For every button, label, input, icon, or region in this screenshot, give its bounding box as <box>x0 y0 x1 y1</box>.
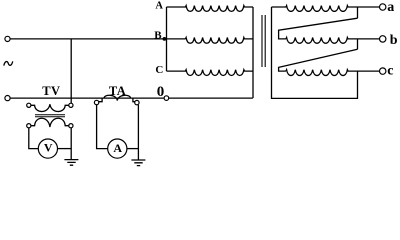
svg-text:a: a <box>387 0 394 15</box>
terminal b <box>380 36 386 42</box>
wire: bottom supply line to O <box>10 97 253 99</box>
voltmeter V <box>38 139 57 158</box>
source top terminal <box>5 36 10 41</box>
winding b (secondary) <box>286 38 358 44</box>
svg-text:0: 0 <box>157 84 165 100</box>
core line left <box>261 15 263 67</box>
wire: TV primary drop from top line <box>70 39 72 103</box>
junction dot node B <box>163 37 167 41</box>
wire: a lead <box>358 6 380 8</box>
TA secondary terminal right <box>135 100 139 104</box>
wire: b junction drop <box>357 39 359 49</box>
TV secondary winding <box>31 118 69 127</box>
svg-text:c: c <box>387 63 393 78</box>
source bottom terminal <box>5 96 10 101</box>
AC source symbol ~ <box>4 61 13 65</box>
wire: a junction drop <box>357 7 359 18</box>
winding C (primary) <box>167 70 254 76</box>
svg-text:V: V <box>44 141 53 155</box>
svg-text:C: C <box>155 64 163 76</box>
winding A (primary) <box>167 6 254 12</box>
wire: primary phase tie line A-B-C <box>166 7 168 71</box>
wire: delta left edge and bottom loop <box>272 7 358 98</box>
ground (TA secondary) <box>131 160 145 166</box>
wire: TV secondary left down to voltmeter <box>29 128 38 149</box>
ammeter A <box>108 139 127 158</box>
wire: TA right down to ground <box>137 105 139 160</box>
wire: TV secondary right down to ground <box>70 128 72 160</box>
wire: b lead <box>358 38 380 40</box>
winding a (secondary) <box>272 6 358 12</box>
wire: voltmeter to ground junction <box>58 148 72 150</box>
wire: TA left down to ammeter <box>97 105 108 149</box>
winding B (primary) <box>185 38 253 44</box>
ground (TV secondary) <box>64 160 78 166</box>
svg-text:A: A <box>113 141 122 155</box>
TV primary terminal left <box>27 103 31 107</box>
terminal a <box>380 4 386 10</box>
wire: top supply line from source to windings <box>10 38 185 40</box>
wire: diagonal a-drop to winding b start <box>279 18 358 39</box>
svg-text:TA: TA <box>109 84 126 98</box>
TV primary terminal right <box>69 103 73 107</box>
TV core bars <box>35 115 65 117</box>
wire: c lead <box>358 70 380 72</box>
TA secondary winding <box>104 95 131 100</box>
TA secondary terminal left <box>94 100 98 104</box>
TV secondary terminal left <box>27 124 31 128</box>
svg-text:TV: TV <box>42 84 60 98</box>
terminal c <box>380 68 386 74</box>
wire: ammeter to ground junction <box>127 148 138 150</box>
wire: primary star bus <box>252 7 254 98</box>
TA secondary stub left <box>99 98 102 102</box>
wire: diagonal b-drop to winding c start <box>279 49 358 71</box>
core line right <box>264 15 266 67</box>
TV secondary terminal right <box>69 124 73 128</box>
svg-text:b: b <box>390 33 398 48</box>
TA secondary stub right <box>133 98 135 102</box>
TV primary winding <box>31 104 69 111</box>
svg-text:B: B <box>154 30 162 42</box>
winding c (secondary) <box>286 70 358 76</box>
svg-text:A: A <box>155 0 163 11</box>
node O terminal <box>164 96 169 101</box>
